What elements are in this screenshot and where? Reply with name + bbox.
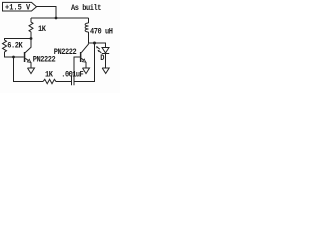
svg-text:D: D xyxy=(100,55,105,64)
svg-text:+1.5 V: +1.5 V xyxy=(5,4,30,13)
svg-text:As built: As built xyxy=(71,5,101,14)
svg-text:PN2222: PN2222 xyxy=(54,48,77,57)
svg-text:PN2222: PN2222 xyxy=(33,56,56,65)
svg-text:.001uF: .001uF xyxy=(61,71,84,80)
svg-text:6.2K: 6.2K xyxy=(7,42,23,51)
svg-text:1K: 1K xyxy=(38,26,46,35)
svg-text:470 uH: 470 uH xyxy=(90,28,113,37)
svg-text:1K: 1K xyxy=(45,71,53,80)
